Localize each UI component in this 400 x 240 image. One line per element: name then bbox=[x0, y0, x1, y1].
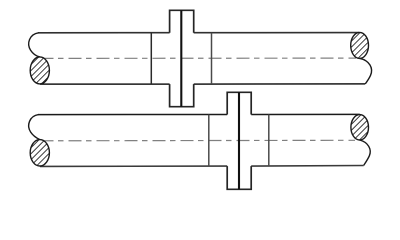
shaft S1 bottom line (interrupted by flange disc) bbox=[40, 83, 170, 85]
flange F2 disc outline (side edges hidden across shaft band) bbox=[227, 92, 251, 189]
flange F1 mating line bbox=[180, 10, 182, 106]
flange F2 mating line bbox=[238, 92, 240, 189]
shaft S2 left break arc bbox=[29, 115, 40, 140]
shaft S2 top line (interrupted by flange disc) bbox=[38, 114, 227, 116]
shaft S1 right break arc bbox=[360, 58, 372, 84]
shaft S1 center line bbox=[41, 57, 357, 59]
shaft S2 right break arc bbox=[360, 140, 371, 165]
flange F1 disc outline (side edges hidden across shaft band) bbox=[170, 10, 194, 106]
shaft S1 top line (interrupted by flange disc) bbox=[38, 32, 170, 34]
shaft S2 right break cross-section ellipse (hatched) bbox=[351, 115, 369, 140]
shaft S1 right break cross-section ellipse (hatched) bbox=[351, 32, 369, 58]
shaft S1 left break cross-section ellipse (hatched) bbox=[30, 57, 49, 84]
shaft S2 center line bbox=[41, 139, 356, 142]
flange F1 hub transition line right bbox=[211, 33, 213, 84]
shaft S2 bottom line (interrupted by flange disc) bbox=[40, 165, 227, 167]
shaft S1 left break arc bbox=[29, 33, 40, 57]
flange F2 hub transition line left bbox=[208, 115, 210, 167]
flange F1 hub transition line left bbox=[150, 33, 152, 84]
shaft S2 left break cross-section ellipse (hatched) bbox=[30, 140, 49, 166]
flange F2 hub transition line right bbox=[268, 115, 270, 167]
